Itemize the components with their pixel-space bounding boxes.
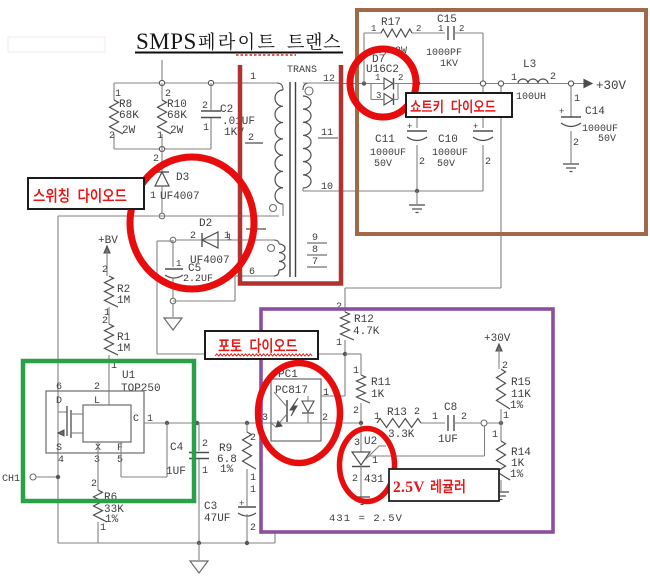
svg-text:10: 10	[321, 182, 333, 193]
svg-text:R15: R15	[511, 377, 531, 389]
svg-text:2: 2	[190, 231, 196, 242]
svg-text:+: +	[559, 107, 564, 117]
svg-text:431: 431	[364, 474, 384, 486]
svg-text:7: 7	[312, 257, 318, 268]
svg-text:C3: C3	[204, 501, 217, 513]
svg-text:1KV: 1KV	[440, 59, 458, 70]
svg-text:2: 2	[414, 407, 420, 418]
svg-text:2: 2	[91, 479, 97, 490]
svg-text:3.3K: 3.3K	[388, 429, 415, 441]
svg-text:431 = 2.5V: 431 = 2.5V	[329, 513, 403, 525]
svg-text:C10: C10	[438, 134, 458, 146]
svg-text:S: S	[56, 443, 62, 454]
svg-text:68K: 68K	[119, 110, 139, 122]
svg-text:D2: D2	[199, 218, 212, 230]
svg-text:C8: C8	[444, 402, 457, 414]
svg-text:47UF: 47UF	[204, 513, 230, 525]
svg-text:1K: 1K	[371, 389, 385, 401]
svg-text:1: 1	[202, 466, 208, 477]
svg-text:9: 9	[312, 233, 318, 244]
svg-text:CH1: CH1	[2, 474, 20, 485]
svg-text:1: 1	[371, 24, 376, 34]
svg-text:5: 5	[117, 455, 123, 466]
svg-text:1: 1	[336, 338, 342, 349]
svg-text:1: 1	[511, 73, 517, 84]
svg-text:1UF: 1UF	[166, 466, 186, 478]
svg-text:2: 2	[573, 138, 579, 149]
svg-text:2: 2	[94, 382, 100, 393]
svg-text:2: 2	[202, 439, 208, 450]
svg-text:C: C	[133, 414, 139, 425]
svg-text:2: 2	[322, 413, 328, 424]
svg-text:U16C2: U16C2	[366, 64, 399, 76]
svg-text:L3: L3	[523, 59, 536, 71]
svg-text:1%: 1%	[105, 514, 119, 526]
svg-text:L: L	[94, 396, 100, 407]
svg-text:1: 1	[372, 456, 378, 467]
svg-text:1M: 1M	[117, 343, 130, 355]
svg-text:68K: 68K	[167, 110, 187, 122]
svg-text:TRANS: TRANS	[287, 65, 317, 76]
svg-text:2: 2	[102, 265, 108, 276]
svg-text:D3: D3	[176, 172, 189, 184]
svg-text:2: 2	[250, 523, 256, 534]
svg-text:1: 1	[503, 411, 509, 422]
svg-text:1: 1	[150, 191, 156, 202]
svg-text:+30V: +30V	[596, 79, 627, 93]
svg-text:50V: 50V	[598, 134, 616, 145]
svg-text:F: F	[117, 443, 123, 454]
svg-text:1000PF: 1000PF	[426, 48, 462, 59]
svg-text:4: 4	[58, 455, 64, 466]
svg-text:1UF: 1UF	[438, 434, 458, 446]
svg-text:1: 1	[176, 259, 181, 269]
svg-text:50V: 50V	[374, 159, 392, 170]
svg-text:1: 1	[353, 366, 359, 377]
svg-text:3: 3	[262, 413, 268, 424]
svg-text:2: 2	[353, 406, 359, 417]
svg-text:C11: C11	[375, 134, 395, 146]
svg-text:50V: 50V	[437, 159, 455, 170]
svg-text:R12: R12	[354, 314, 374, 326]
svg-text:2: 2	[550, 72, 556, 83]
svg-text:4.7K: 4.7K	[353, 326, 380, 338]
svg-text:1: 1	[574, 94, 580, 105]
svg-text:R17: R17	[381, 17, 401, 29]
svg-text:1: 1	[250, 473, 256, 484]
svg-text:1: 1	[224, 231, 230, 242]
svg-text:2: 2	[419, 157, 425, 168]
svg-text:C14: C14	[585, 106, 605, 118]
svg-text:2: 2	[202, 101, 208, 112]
svg-text:R13: R13	[387, 407, 407, 419]
svg-text:1M: 1M	[117, 295, 130, 307]
svg-text:1000UF: 1000UF	[432, 148, 468, 159]
svg-text:1: 1	[492, 430, 498, 441]
svg-text:D: D	[56, 396, 62, 407]
svg-text:100UH: 100UH	[516, 92, 546, 103]
svg-text:6: 6	[56, 382, 62, 393]
svg-text:U2: U2	[364, 436, 377, 448]
svg-text:1: 1	[250, 72, 256, 83]
svg-text:SMPS: SMPS	[136, 29, 197, 54]
svg-text:1: 1	[250, 485, 256, 496]
svg-text:2: 2	[102, 316, 108, 327]
svg-text:3: 3	[376, 91, 381, 101]
svg-text:2: 2	[461, 412, 467, 423]
svg-text:3: 3	[94, 455, 100, 466]
svg-text:C4: C4	[170, 442, 184, 454]
svg-text:UF4007: UF4007	[160, 191, 200, 203]
svg-text:1: 1	[323, 388, 329, 399]
svg-text:2: 2	[109, 131, 115, 142]
svg-text:3: 3	[354, 438, 360, 449]
svg-text:1: 1	[157, 131, 163, 142]
svg-text:2: 2	[352, 474, 358, 485]
svg-text:2W: 2W	[170, 125, 184, 137]
svg-text:TOP250: TOP250	[121, 383, 161, 395]
svg-text:1%: 1%	[510, 469, 524, 481]
svg-text:+BV: +BV	[98, 235, 118, 247]
svg-text:11: 11	[321, 128, 333, 139]
svg-text:2: 2	[485, 157, 491, 168]
svg-text:PC817: PC817	[275, 385, 308, 397]
svg-text:1: 1	[100, 523, 106, 534]
svg-text:6: 6	[249, 267, 255, 278]
svg-text:U1: U1	[122, 370, 136, 382]
svg-text:+30V: +30V	[484, 333, 511, 345]
svg-text:C2: C2	[220, 104, 233, 116]
svg-text:R11: R11	[371, 377, 391, 389]
svg-text:1: 1	[438, 24, 443, 34]
svg-text:1%: 1%	[220, 464, 234, 476]
svg-text:2: 2	[248, 133, 254, 144]
svg-text:8: 8	[312, 245, 318, 256]
svg-text:1%: 1%	[510, 400, 524, 412]
svg-text:1: 1	[432, 412, 438, 423]
svg-text:2.5V: 2.5V	[393, 479, 425, 496]
svg-text:1: 1	[203, 123, 209, 134]
svg-text:2W: 2W	[122, 125, 136, 137]
svg-text:1: 1	[374, 412, 380, 423]
svg-text:1000UF: 1000UF	[370, 148, 406, 159]
